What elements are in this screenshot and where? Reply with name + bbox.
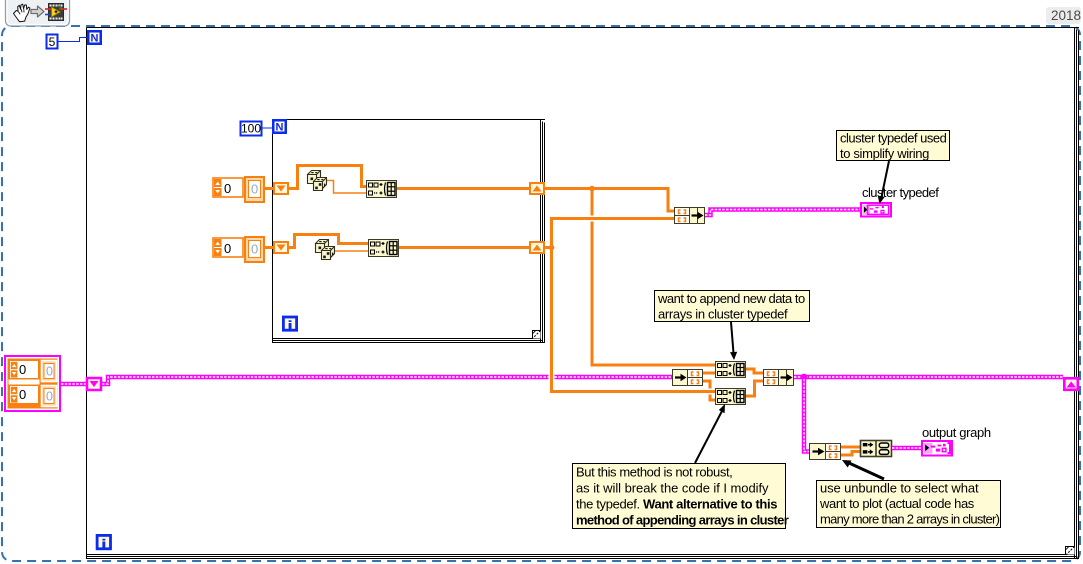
comment: use unbundle to select xyxy=(817,481,1001,528)
svg-text:2018: 2018 xyxy=(1051,8,1081,23)
junction on row2 wire xyxy=(549,245,555,251)
wires build arrays to bundle2 xyxy=(746,369,763,373)
svg-text:0: 0 xyxy=(251,242,258,257)
array constant row2 (element) xyxy=(245,237,264,262)
comment: want to append new data xyxy=(655,291,810,322)
cluster constant (far left) xyxy=(5,356,60,411)
dice icon row1 xyxy=(308,171,327,191)
graph bundle node xyxy=(861,441,892,457)
wire array row1 to shift register xyxy=(264,187,274,190)
toolbar arrow tool icon xyxy=(31,6,44,17)
inner loop count terminal N xyxy=(273,120,286,133)
pink shift register on outer loop right border (up arrow) xyxy=(1064,378,1078,390)
arrow: comment4 to unbundle2 xyxy=(842,460,884,479)
wire: right SR row1 to bundle1 top input xyxy=(544,189,674,212)
arrow: comment1 to cluster typedef indicator xyxy=(878,161,889,204)
svg-text:want to append new data to: want to append new data to xyxy=(657,291,805,306)
arrow: comment2 to build array BA1 xyxy=(730,322,737,360)
wire: row2 junction up to bundle1 bottom input xyxy=(552,219,675,250)
wire: row2 junction down to y391 horizontal into BA2 xyxy=(552,246,716,392)
toolbar hand tool icon xyxy=(14,4,30,22)
svg-text:But this method is not robust,: But this method is not robust, xyxy=(576,465,732,480)
shift register right row1 (up arrow) xyxy=(530,183,544,194)
svg-text:many more than 2 arrays in clu: many more than 2 arrays in cluster) xyxy=(820,512,1000,527)
svg-text:0: 0 xyxy=(19,362,26,377)
svg-text:0: 0 xyxy=(251,182,258,197)
outer loop count terminal N xyxy=(88,31,101,44)
numeric constant 100 xyxy=(241,122,262,136)
wire row1 build array to right shift register xyxy=(397,187,530,190)
version label 2018 xyxy=(1046,7,1081,24)
svg-text:100: 100 xyxy=(241,122,261,136)
junction on row1 wire xyxy=(589,186,595,192)
bundle2 node (arrays back into cluster) xyxy=(764,370,794,386)
svg-text:cluster typedef used: cluster typedef used xyxy=(840,131,947,146)
outer loop resize corner xyxy=(1066,546,1075,555)
svg-text:0: 0 xyxy=(224,181,231,196)
toolbar panel top-left xyxy=(6,0,70,26)
arrow: comment3 to build array BA2 xyxy=(695,404,725,463)
svg-text:want to plot (actual code has: want to plot (actual code has xyxy=(819,496,975,511)
unbundle2 node xyxy=(810,444,841,460)
svg-text:use unbundle to select what: use unbundle to select what xyxy=(820,481,979,496)
toolbar VI run icon xyxy=(45,4,67,21)
shift register left row2 (down arrow) xyxy=(274,242,288,253)
pink wire: bundle1 to cluster typedef indicator xyxy=(705,210,860,216)
wire row2: shift register to build array (thick) xyxy=(289,235,368,248)
svg-text:the typedef. Want alternative: the typedef. Want alternative to this xyxy=(576,497,777,512)
array constant row1 (element) xyxy=(245,177,264,202)
svg-text:0: 0 xyxy=(46,390,53,404)
svg-text:arrays in cluster typedef: arrays in cluster typedef xyxy=(658,307,788,322)
inner for-loop border xyxy=(273,120,546,344)
svg-text:N: N xyxy=(276,122,284,134)
wire row2 build array to right shift register xyxy=(399,246,530,249)
svg-text:0: 0 xyxy=(46,365,53,379)
svg-text:5: 5 xyxy=(49,35,56,49)
inner loop resize corner xyxy=(533,331,541,339)
wire row1: shift register to build array (thick) xyxy=(289,166,366,189)
comment: cluster typedef used to simplify wiring xyxy=(837,131,950,162)
svg-text:0: 0 xyxy=(224,241,231,256)
pink wire bundle2 to right shift register xyxy=(794,375,1063,380)
pink shift register on outer loop left border (down arrow) xyxy=(87,378,101,390)
svg-text:method of appending arrays in: method of appending arrays in cluster xyxy=(576,513,789,528)
bundle1 node (arrays to cluster) xyxy=(675,208,705,224)
svg-text:0: 0 xyxy=(19,387,26,402)
array constant row1 (index display) xyxy=(213,178,243,197)
build array node BA1 (append) xyxy=(716,362,746,378)
output graph indicator xyxy=(922,441,952,456)
svg-text:to simplify wiring: to simplify wiring xyxy=(840,146,929,161)
shift register right row2 (up arrow) xyxy=(530,242,544,253)
cluster typedef indicator xyxy=(861,203,891,217)
svg-text:cluster typedef: cluster typedef xyxy=(862,185,939,200)
build array node row2 xyxy=(369,240,399,257)
array constant row2 (index display) xyxy=(213,238,243,257)
shift register left row1 (down arrow) xyxy=(274,183,288,194)
inner loop iteration terminal i xyxy=(283,317,296,330)
comment: but this method is not robust xyxy=(573,464,789,529)
svg-text:N: N xyxy=(91,33,99,45)
numeric constant 5 xyxy=(47,35,58,50)
wire array row2 to shift register xyxy=(264,246,274,249)
pink junction xyxy=(801,374,808,381)
wire 5 to N (blue) xyxy=(58,38,87,42)
pink wire down to unbundle2 xyxy=(804,377,809,452)
svg-text:as it will break the code if I: as it will break the code if I modify xyxy=(576,481,769,496)
svg-text:output graph: output graph xyxy=(922,425,991,440)
wire row1: dice to build array (thin) xyxy=(326,181,366,194)
build array node row1 xyxy=(367,181,397,198)
build array node BA2 (append) xyxy=(716,389,746,405)
pink wire graph bundle to output graph indicator xyxy=(892,446,921,451)
wires unbundle1 to build arrays xyxy=(703,372,715,375)
unbundle node 1 xyxy=(673,370,703,386)
wire 100 to N (blue) xyxy=(262,127,273,129)
wire: vertical from row1 junction down to build array BA1 (with gap at y218 crossing) xyxy=(591,189,594,216)
outer loop iteration terminal i xyxy=(97,535,110,548)
dice icon row2 xyxy=(316,240,335,260)
wire row2: dice to build array (thin) xyxy=(334,250,368,252)
wire: right SR row2 out xyxy=(544,246,554,249)
pink main wire from left cluster across diagram xyxy=(61,382,87,387)
wires unbundle2 to graph bundle xyxy=(841,446,860,449)
